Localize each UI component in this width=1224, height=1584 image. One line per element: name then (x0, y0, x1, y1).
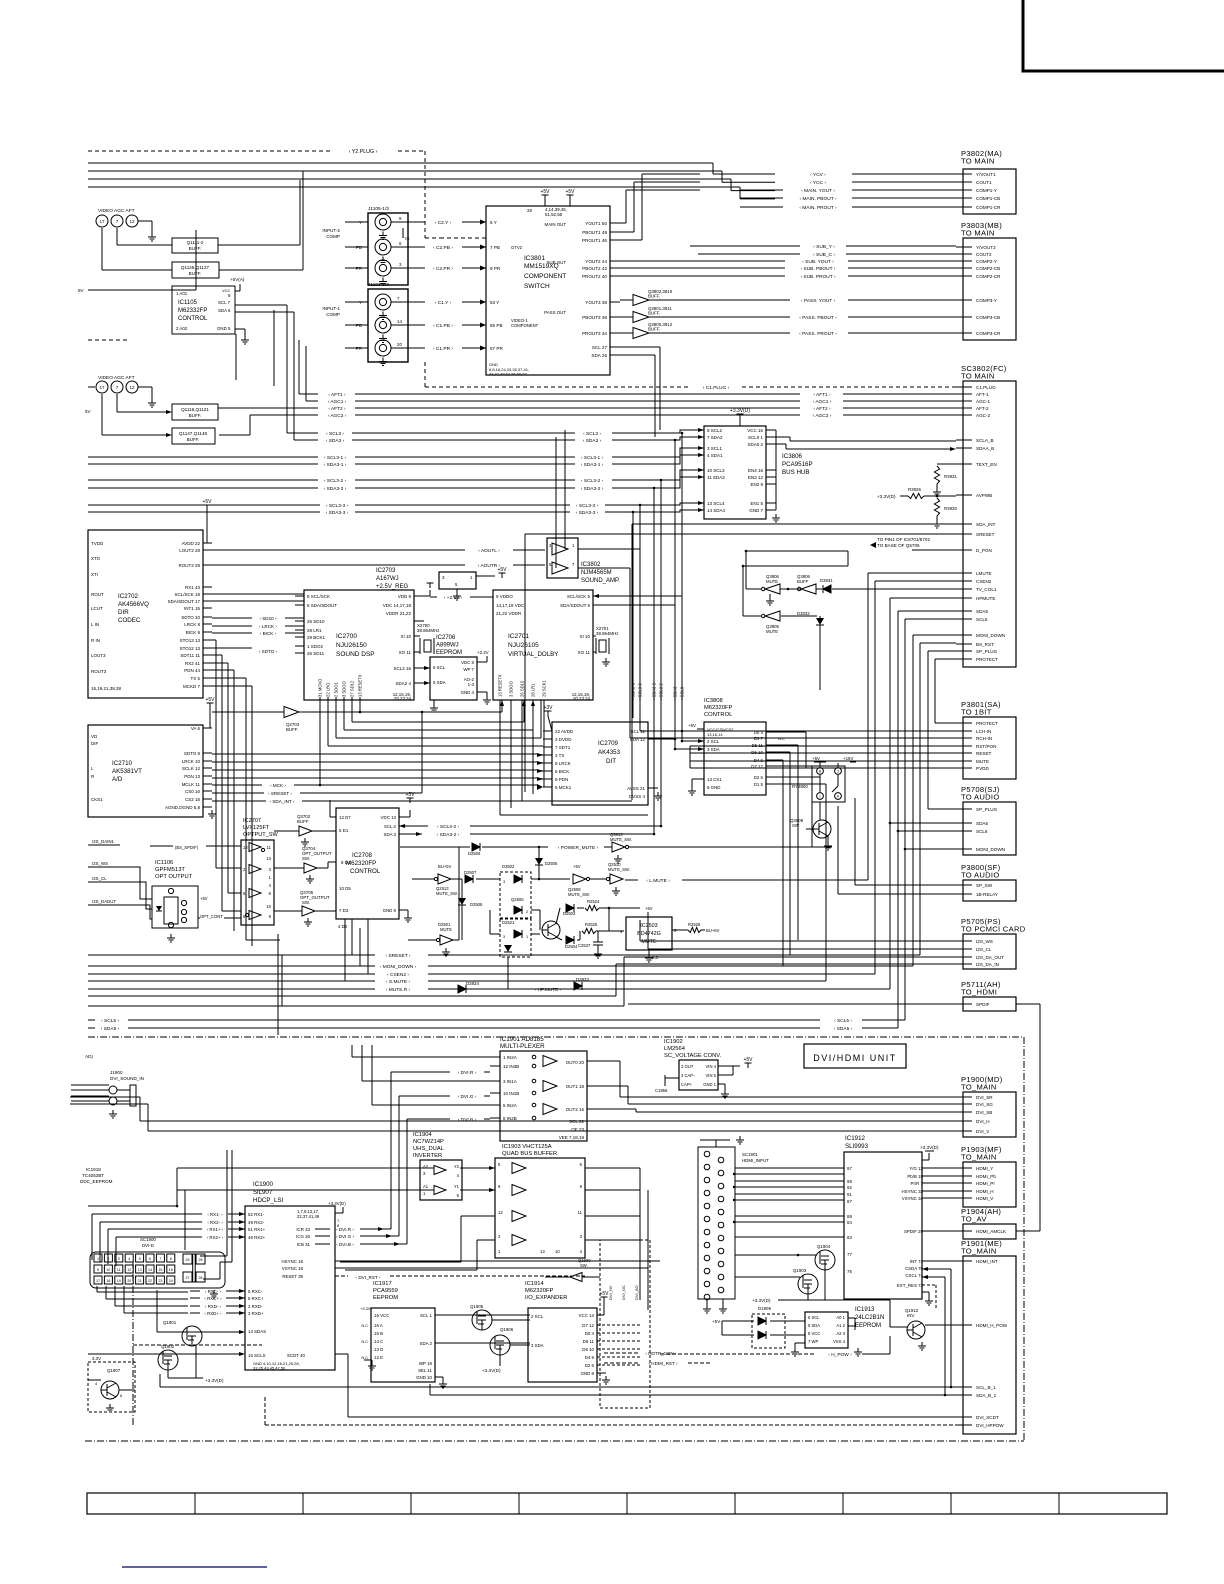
connector P5705(PS) (956, 917, 1026, 969)
svg-text:‹ YCV ›: ‹ YCV › (810, 172, 826, 178)
svg-text:IC2700: IC2700 (336, 633, 357, 640)
svg-text:D1909: D1909 (758, 1306, 771, 1311)
svg-text:‹ SCL3 ›: ‹ SCL3 › (583, 431, 601, 437)
svg-text:YOUT1 50: YOUT1 50 (585, 221, 607, 226)
svg-text:‹ SRESET ›: ‹ SRESET › (386, 953, 411, 959)
svg-text:+3.3V: +3.3V (360, 1306, 371, 1311)
svg-text:I2S_WS: I2S_WS (976, 939, 993, 944)
svg-text:TX 5: TX 5 (190, 676, 200, 681)
wires IC3808 outputs (776, 732, 826, 981)
svg-text:22 AVDD: 22 AVDD (555, 729, 574, 734)
buffer Q3702 (274, 800, 336, 846)
svg-text:EN1 5: EN1 5 (750, 501, 763, 506)
svg-text:SCL 2: SCL 2 (384, 824, 397, 829)
svg-text:‹ HP.MUTE ›: ‹ HP.MUTE › (535, 987, 562, 993)
svg-text:‹ SCL5 ›: ‹ SCL5 › (101, 1018, 119, 1024)
svg-text:9 PR: 9 PR (490, 266, 501, 271)
svg-text:SCDT 40: SCDT 40 (287, 1353, 306, 1358)
svg-text:IC1904: IC1904 (413, 1132, 432, 1138)
svg-text:IC1912: IC1912 (845, 1135, 866, 1142)
wires bus into IC3808 (674, 740, 684, 751)
svg-text:BU+5V: BU+5V (438, 864, 452, 869)
wires to P3802 (740, 172, 956, 211)
svg-text:INPUT-2: INPUT-2 (322, 228, 340, 233)
svg-text:D7 12: D7 12 (582, 1323, 594, 1328)
connector P5708(SJ) (956, 785, 1016, 855)
svg-text:‹ MONI_DOWN ›: ‹ MONI_DOWN › (380, 964, 417, 970)
svg-text:GND 5: GND 5 (217, 326, 231, 331)
svg-text:‹ SDTO ›: ‹ SDTO › (259, 649, 278, 654)
svg-text:INT1 15: INT1 15 (184, 606, 201, 611)
svg-text:COMP1-CB: COMP1-CB (976, 196, 1000, 201)
svg-text:‹ SCL3 ›: ‹ SCL3 › (326, 431, 344, 437)
svg-text:D2505: D2505 (545, 861, 558, 866)
svg-text:D2521: D2521 (502, 920, 515, 925)
svg-text:IC1918: IC1918 (86, 1167, 101, 1172)
svg-text:SW.: SW. (792, 823, 800, 828)
svg-text:Q1125,Q1127: Q1125,Q1127 (181, 265, 210, 270)
diode D1909 (712, 1306, 805, 1348)
svg-text:UHS_DUAL: UHS_DUAL (413, 1146, 445, 1152)
op-amp IC3806 bus hub (693, 408, 813, 522)
svg-text:17: 17 (96, 1279, 100, 1283)
svg-text:2 SCL: 2 SCL (531, 1314, 544, 1319)
svg-text:EEPROM: EEPROM (436, 650, 462, 656)
svg-text:+3.3V(D): +3.3V(D) (328, 1201, 346, 1206)
svg-text:15 SCLS: 15 SCLS (248, 1353, 266, 1358)
svg-text:10 D5: 10 D5 (339, 886, 351, 891)
svg-text:CSDA 75: CSDA 75 (905, 1266, 924, 1271)
svg-text:YOUT3 38: YOUT3 38 (585, 300, 607, 305)
svg-text:PBOUT1 48: PBOUT1 48 (582, 230, 607, 235)
svg-text:MCLK 11: MCLK 11 (182, 782, 201, 787)
svg-text:11: 11 (578, 1210, 583, 1215)
svg-text:‹ DVI.B ›: ‹ DVI.B › (458, 1117, 477, 1123)
svg-text:Q1147,Q1148: Q1147,Q1148 (179, 431, 208, 436)
wires IC2702 to IC2700 (212, 594, 304, 946)
svg-text:3 RXD+: 3 RXD+ (248, 1311, 264, 1316)
svg-text:R3931: R3931 (944, 474, 957, 479)
svg-text:VDC 13: VDC 13 (381, 815, 397, 820)
svg-text:AK5381VT: AK5381VT (112, 768, 142, 775)
net H_POW (660, 1336, 890, 1358)
svg-text:SCLA_B: SCLA_B (976, 438, 994, 443)
svg-text:BUFF.: BUFF. (286, 727, 298, 732)
svg-text:‹ BICK ›: ‹ BICK › (260, 631, 277, 636)
net labels C2/C1 component (408, 220, 486, 353)
svg-text:LOUT2 28: LOUT2 28 (179, 548, 200, 553)
svg-text:5 MCK1: 5 MCK1 (555, 785, 572, 790)
svg-text:BD4742G: BD4742G (637, 931, 661, 937)
svg-text:16 VCC: 16 VCC (374, 1313, 389, 1318)
svg-text:MUTE: MUTE (766, 629, 778, 634)
wire sreset bend (88, 934, 624, 1035)
svg-text:SDA_INT: SDA_INT (976, 522, 996, 527)
svg-text:A2 3: A2 3 (836, 1331, 845, 1336)
svg-text:3 IN1A: 3 IN1A (503, 1079, 517, 1084)
svg-text:Q1119,Q1121: Q1119,Q1121 (181, 407, 209, 412)
svg-text:33,35,43,45,47,50: 33,35,43,45,47,50 (253, 1366, 286, 1371)
svg-text:1: 1 (819, 795, 821, 799)
svg-text:LM2564: LM2564 (664, 1046, 686, 1052)
svg-text:D2504: D2504 (565, 944, 578, 949)
svg-text:BUFF.: BUFF. (189, 246, 202, 251)
svg-text:Q1904: Q1904 (817, 1244, 831, 1249)
svg-text:20,23,24: 20,23,24 (573, 696, 591, 701)
wires DVI_SCDT (265, 1395, 956, 1425)
svg-text:‹ SDA3: ‹ SDA3 (673, 686, 678, 700)
svg-text:AGC-2: AGC-2 (976, 413, 990, 418)
svg-text:5 Y: 5 Y (490, 220, 497, 225)
connector P3800(SF) (956, 863, 1016, 901)
svg-text:Pb/B 15: Pb/B 15 (907, 1174, 923, 1179)
svg-text:VDC 8: VDC 8 (461, 660, 474, 665)
svg-text:‹ DVI.G ›: ‹ DVI.G › (336, 1234, 355, 1239)
svg-text:DVI_SR: DVI_SR (976, 1095, 993, 1100)
svg-text:52 RX1-: 52 RX1- (248, 1212, 265, 1217)
svg-text:Q1111-2: Q1111-2 (187, 240, 204, 245)
svg-text:IC2702: IC2702 (118, 593, 139, 600)
regulator IC2503 (620, 917, 720, 962)
svg-text:TVDD: TVDD (91, 541, 104, 546)
svg-text:5V: 5V (85, 409, 92, 414)
svg-text:22: 22 (148, 1279, 152, 1283)
svg-text:7 SDT1: 7 SDT1 (555, 745, 571, 750)
svg-text:‹ RXD+ ›: ‹ RXD+ › (204, 1311, 222, 1316)
svg-text:TO MAIN: TO MAIN (961, 229, 995, 238)
svg-text:IC2703: IC2703 (376, 568, 396, 574)
svg-text:TC4053BT: TC4053BT (82, 1173, 104, 1178)
svg-text:‹ SCL3-3: ‹ SCL3-3 (638, 683, 643, 700)
wire sda_int vertical (525, 524, 632, 800)
svg-text:13: 13 (540, 1249, 545, 1254)
svg-text:I2S_DA_IN: I2S_DA_IN (976, 962, 999, 967)
svg-text:COMP3-Y: COMP3-Y (976, 298, 997, 303)
svg-text:+3.3V(D): +3.3V(D) (920, 1145, 939, 1150)
svg-text:5 SCL/SCK: 5 SCL/SCK (307, 594, 330, 599)
mute switch row2 (412, 862, 868, 918)
svg-text:10: 10 (555, 1249, 560, 1254)
svg-text:(BS_SPDIF): (BS_SPDIF) (175, 845, 199, 850)
wires HSYNC VSYNC RESET (335, 1261, 660, 1280)
connector SC1901 HDMI input (698, 1136, 769, 1313)
svg-text:TO: TO (404, 236, 409, 241)
svg-text:‹ PASS. YOUT ›: ‹ PASS. YOUT › (801, 298, 836, 304)
svg-text:BUFF.: BUFF. (187, 437, 200, 442)
svg-text:+5V: +5V (565, 189, 575, 195)
svg-text:VEE 7,18,19: VEE 7,18,19 (559, 1135, 585, 1140)
svg-text:7 PB: 7 PB (490, 245, 500, 250)
svg-text:ICG 26: ICG 26 (296, 1234, 310, 1239)
svg-text:‹ SDA3-2 ›: ‹ SDA3-2 › (581, 486, 604, 492)
svg-text:VA 6: VA 6 (191, 726, 201, 731)
svg-text:22 LRO: 22 LRO (326, 682, 331, 697)
svg-text:‹ LRCK ›: ‹ LRCK › (259, 624, 277, 629)
svg-text:IC1917: IC1917 (373, 1281, 392, 1287)
svg-text:55 PB: 55 PB (490, 323, 503, 328)
svg-text:I2S_DAIN1: I2S_DAIN1 (92, 839, 115, 844)
svg-text:J1103-1/3: J1103-1/3 (368, 282, 389, 288)
wires SC1901 to IC1912 (733, 1168, 844, 1277)
svg-text:HSYNC 18: HSYNC 18 (282, 1259, 304, 1264)
svg-text:‹ SCL3-3 ›: ‹ SCL3-3 › (326, 503, 349, 509)
svg-text:DVI_H: DVI_H (976, 1119, 990, 1124)
svg-text:M62320FP: M62320FP (525, 1288, 553, 1294)
svg-text:DVI_HV: DVI_HV (608, 1285, 613, 1300)
svg-text:22,37,41,49: 22,37,41,49 (297, 1214, 320, 1219)
svg-text:XTI: XTI (91, 572, 98, 577)
svg-text:13 RESETX: 13 RESETX (358, 674, 363, 697)
svg-text:RESET: RESET (976, 751, 992, 756)
svg-text:SEL 11: SEL 11 (418, 1368, 432, 1373)
wires P5711 (628, 1004, 1040, 1231)
svg-text:RX2 41: RX2 41 (185, 661, 201, 666)
svg-text:SW.: SW. (580, 1263, 588, 1268)
svg-text:+3.3V(D): +3.3V(D) (730, 408, 750, 414)
wires IC1901 outputs (70, 1061, 956, 1131)
svg-text:‹ PASS. PBOUT ›: ‹ PASS. PBOUT › (799, 315, 837, 321)
svg-text:PROTECT: PROTECT (976, 721, 998, 726)
svg-text:I2S_CL: I2S_CL (976, 947, 992, 952)
svg-text:1-3: 1-3 (468, 682, 475, 687)
svg-text:+5V: +5V (573, 864, 581, 869)
svg-text:XTO: XTO (91, 556, 101, 561)
transistor Q1906 (482, 1320, 530, 1373)
svg-text:12: 12 (129, 219, 135, 224)
svg-text:C2537: C2537 (578, 943, 591, 948)
eeprom IC1913 (791, 1307, 884, 1356)
wires IC2701 right (593, 594, 682, 605)
svg-text:12: 12 (127, 1268, 131, 1272)
svg-text:CAP+: CAP+ (681, 1082, 693, 1087)
svg-text:VSYNC 19: VSYNC 19 (282, 1266, 304, 1271)
svg-text:D4 9: D4 9 (585, 1355, 595, 1360)
svg-text:GND 10: GND 10 (416, 1375, 432, 1380)
svg-text:‹ MAIN. PROUT ›: ‹ MAIN. PROUT › (799, 205, 837, 211)
svg-text:29 BCK1: 29 BCK1 (307, 635, 326, 640)
connector SC3802(FC) (956, 364, 1016, 667)
svg-text:12 IN3B: 12 IN3B (503, 1064, 519, 1069)
svg-text:VIN 5: VIN 5 (706, 1073, 717, 1078)
svg-text:SOUND DSP: SOUND DSP (336, 651, 375, 658)
svg-text:HDMI_Y: HDMI_Y (976, 1166, 993, 1171)
svg-text:A1: A1 (423, 1184, 429, 1189)
svg-text:13 RESETX: 13 RESETX (498, 674, 503, 697)
svg-text:I2S_CL: I2S_CL (92, 876, 107, 881)
svg-text:+5V: +5V (202, 499, 212, 505)
svg-text:SDA 3: SDA 3 (384, 832, 397, 837)
left stub wires top (78, 230, 196, 414)
svg-text:C1.PLUG: C1.PLUG (976, 385, 996, 390)
svg-text:1: 1 (97, 1257, 99, 1261)
svg-text:GPFM513T: GPFM513T (155, 867, 185, 873)
wires IC2710 outputs (212, 753, 543, 781)
svg-text:SC1900: SC1900 (140, 1237, 156, 1242)
svg-text:+5V: +5V (645, 906, 653, 911)
svg-text:MUTE: MUTE (641, 939, 657, 945)
svg-text:VIDEO AGC AFT: VIDEO AGC AFT (98, 375, 135, 381)
wires IC1912 to P1903 (922, 1168, 956, 1396)
svg-text:7 D3: 7 D3 (339, 908, 349, 913)
svg-text:1 SDO2: 1 SDO2 (307, 644, 324, 649)
svg-text:LRCK 8: LRCK 8 (184, 622, 200, 627)
svg-text:NJU26105: NJU26105 (508, 642, 539, 649)
svg-text:49 RX2-: 49 RX2- (248, 1220, 265, 1225)
relay RY3800 (792, 756, 856, 802)
svg-text:21: 21 (138, 1279, 142, 1283)
svg-text:SC_VOLTAGE CONV.: SC_VOLTAGE CONV. (664, 1053, 722, 1059)
svg-text:SCL_B_1: SCL_B_1 (976, 1385, 996, 1390)
svg-text:EN2 9: EN2 9 (750, 482, 763, 487)
svg-text:6 SCL: 6 SCL (808, 1315, 820, 1320)
svg-text:16,19,21,38,38: 16,19,21,38,38 (91, 686, 122, 691)
svg-text:+5V: +5V (712, 1319, 721, 1324)
svg-text:N.C: N.C (361, 1324, 368, 1328)
svg-text:SRESET: SRESET (976, 532, 995, 537)
svg-text:‹ C2.Y ›: ‹ C2.Y › (435, 220, 452, 226)
svg-text:CONTROL: CONTROL (178, 316, 208, 322)
svg-text:88: 88 (847, 1214, 852, 1219)
svg-text:IC3801: IC3801 (524, 255, 545, 262)
svg-text:PROUT3 34: PROUT3 34 (582, 331, 607, 336)
svg-text:SCL 1: SCL 1 (420, 1313, 433, 1318)
svg-text:A0 1: A0 1 (836, 1315, 845, 1320)
svg-text:SOUND_AMP.: SOUND_AMP. (581, 578, 620, 584)
transistor Q3806 Q3805 mute buffers (742, 550, 962, 690)
svg-text:HDMI_INPUT: HDMI_INPUT (742, 1158, 769, 1163)
svg-text:‹ MCK ›: ‹ MCK › (270, 783, 286, 788)
dashed C1.PLUG bottom (425, 362, 956, 391)
svg-text:HDMI_H_POW: HDMI_H_POW (976, 1323, 1008, 1328)
op-amp IC2701 virtual dolby (493, 590, 593, 701)
svg-text:23: 23 (158, 1279, 162, 1283)
optical IC1106 (152, 860, 223, 942)
wires SRESET group (88, 953, 920, 993)
svg-text:3: 3 (503, 880, 505, 884)
svg-text:6 SDA/SDOUT: 6 SDA/SDOUT (307, 603, 337, 608)
svg-text:LVX125FT: LVX125FT (243, 825, 270, 831)
svg-text:+2.2V: +2.2V (477, 650, 489, 655)
svg-text:10: 10 (106, 1268, 110, 1272)
svg-text:D6 11: D6 11 (583, 1339, 595, 1344)
svg-text:26 SD11: 26 SD11 (307, 651, 325, 656)
svg-text:VCC 13: VCC 13 (579, 1313, 595, 1318)
svg-text:15: 15 (158, 1268, 162, 1272)
svg-text:HSYNC 33: HSYNC 33 (902, 1189, 924, 1194)
svg-text:+5V: +5V (743, 1057, 753, 1063)
svg-text:M62320FP: M62320FP (704, 705, 732, 711)
svg-text:SDTO 10: SDTO 10 (181, 615, 200, 620)
svg-text:D2507: D2507 (464, 870, 477, 875)
svg-text:DVI_V: DVI_V (976, 1129, 990, 1134)
wires RX nets (190, 1212, 235, 1240)
svg-text:D3834: D3834 (466, 981, 479, 986)
svg-text:‹ SUB. PBOUT ›: ‹ SUB. PBOUT › (801, 266, 836, 272)
svg-text:‹ RX2- ›: ‹ RX2- › (207, 1220, 223, 1225)
svg-text:EXT_RES 72: EXT_RES 72 (897, 1283, 924, 1288)
svg-text:LOUT3: LOUT3 (91, 653, 106, 658)
op-amp IC1900 HDCP LSI (235, 1181, 346, 1371)
svg-text:Y/G 12: Y/G 12 (909, 1166, 923, 1171)
svg-text:‹ C2.PR ›: ‹ C2.PR › (433, 266, 453, 272)
svg-text:SDA5: SDA5 (976, 609, 988, 614)
svg-text:+5V: +5V (812, 756, 820, 761)
svg-text:ICR 23: ICR 23 (296, 1227, 310, 1232)
svg-text:MUTE_SW.: MUTE_SW. (610, 837, 632, 842)
svg-text:‹ SRESET ›: ‹ SRESET › (268, 791, 292, 796)
svg-text:‹ CSEN2 ›: ‹ CSEN2 › (387, 972, 409, 978)
svg-text:MONI_DOWN: MONI_DOWN (976, 633, 1005, 638)
svg-text:DIR: DIR (118, 609, 129, 616)
svg-text:VD: VD (91, 734, 98, 739)
svg-text:13,16,14: 13,16,14 (707, 732, 723, 737)
svg-text:COMP1-Y: COMP1-Y (976, 188, 997, 193)
svg-text:16 A: 16 A (374, 1323, 383, 1328)
svg-text:Q2506: Q2506 (511, 897, 524, 902)
svg-text:COUT2: COUT2 (976, 252, 992, 257)
svg-text:53 Y: 53 Y (490, 300, 499, 305)
svg-text:2 A02: 2 A02 (176, 326, 188, 331)
svg-text:10 SCL3: 10 SCL3 (707, 468, 725, 473)
svg-text:TV_COL1: TV_COL1 (976, 587, 997, 592)
svg-text:D0 4: D0 4 (585, 1331, 595, 1336)
svg-text:14: 14 (148, 1268, 152, 1272)
svg-text:EEPROM: EEPROM (855, 1323, 881, 1329)
svg-text:NJU26150: NJU26150 (336, 642, 367, 649)
svg-text:D5 10: D5 10 (582, 1347, 594, 1352)
svg-text:7 SDA2: 7 SDA2 (707, 435, 723, 440)
svg-text:‹ AFT2 ›: ‹ AFT2 › (813, 406, 831, 412)
svg-text:BUS HUB: BUS HUB (782, 469, 810, 476)
svg-text:13: 13 (138, 1268, 142, 1272)
svg-text:+5V: +5V (497, 567, 507, 573)
svg-text:RST/PON: RST/PON (976, 744, 996, 749)
svg-text:25 SD10: 25 SD10 (307, 619, 325, 624)
svg-text:‹ C1.PB ›: ‹ C1.PB › (433, 323, 453, 329)
svg-text:97: 97 (847, 1166, 852, 1171)
op-amp IC3802 sound amp (547, 538, 640, 738)
svg-text:IC3806: IC3806 (782, 453, 803, 460)
footer link line (122, 1566, 267, 1568)
svg-text:SWITCH: SWITCH (524, 283, 550, 290)
wires I2S left (88, 839, 241, 919)
svg-text:AK4353: AK4353 (598, 749, 621, 756)
svg-text:2 OUT: 2 OUT (681, 1064, 694, 1069)
svg-text:3: 3 (503, 935, 505, 939)
svg-text:EN3 12: EN3 12 (748, 475, 764, 480)
svg-text:DDC_EEPROM: DDC_EEPROM (80, 1179, 113, 1184)
svg-text:CSCL 74: CSCL 74 (905, 1273, 923, 1278)
svg-text:3 SDOO: 3 SDOO (342, 680, 347, 697)
buffer Q1125,Q1127 (102, 171, 303, 278)
svg-text:WP 19: WP 19 (419, 1361, 433, 1366)
svg-text:ROUT: ROUT (91, 592, 104, 597)
svg-text:BUFF: BUFF (297, 819, 309, 824)
svg-text:YOUT2 44: YOUT2 44 (585, 259, 607, 264)
svg-text:Pr/R 7: Pr/R 7 (911, 1181, 924, 1186)
svg-text:PCA9559: PCA9559 (373, 1288, 398, 1294)
svg-text:2 RXD-: 2 RXD- (248, 1304, 263, 1309)
svg-text:A167WJ: A167WJ (376, 576, 399, 582)
svg-text:Q1906: Q1906 (500, 1327, 514, 1332)
svg-text:COMP3-CR: COMP3-CR (976, 331, 1001, 336)
svg-text:92: 92 (847, 1185, 852, 1190)
svg-text:SCL2 16: SCL2 16 (393, 666, 411, 671)
svg-text:‹ SCL3-2: ‹ SCL3-2 (659, 683, 664, 700)
svg-text:20: 20 (397, 342, 402, 347)
svg-text:LMUTE: LMUTE (976, 571, 992, 576)
svg-text:IC1913: IC1913 (855, 1307, 875, 1313)
